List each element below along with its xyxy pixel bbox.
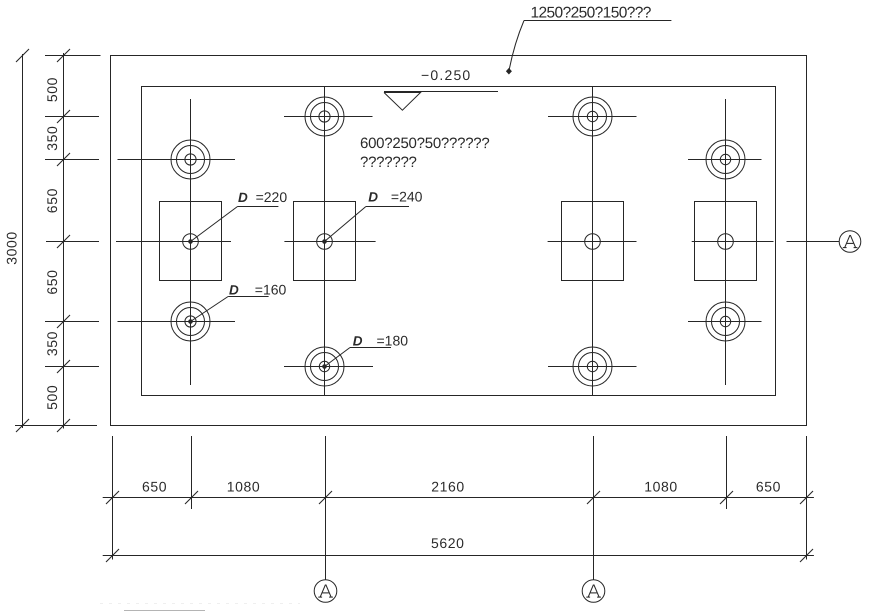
svg-text:1080: 1080 [227,478,261,494]
left extension row y=116.5 [45,116,99,118]
svg-text:1080: 1080 [644,478,678,494]
svg-text:500: 500 [44,77,60,102]
faint cropped title text at bottom left [124,610,205,612]
pile P2 top row column 3 [548,97,637,136]
bottom dimension row 1 [103,497,814,499]
svg-text:350: 350 [44,331,60,356]
pile P3 upper column 1 [118,140,236,179]
grid line column 2 [324,87,326,396]
inner foundation outline [142,87,776,396]
svg-text:5620: 5620 [431,535,465,551]
left extension row y=159.5 [45,159,99,161]
svg-text:1250?250?150???: 1250?250?150??? [530,5,651,22]
section bubble A bottom right [582,580,605,603]
bottom tick marks [106,491,813,562]
svg-text:D: D [368,190,378,205]
grid line column 3 [592,87,594,396]
bottom extension line column 3 down to bubble [593,436,595,580]
section bubble A right [839,231,861,253]
left extension row y=241.5 [46,241,99,243]
svg-text:D: D [229,283,239,298]
section bubble A bottom left [314,580,337,603]
pile P1 top row column 2 [284,97,373,136]
pile P7 bottom row column 2 [284,347,373,386]
leader D=160 to P5 pile [188,282,286,324]
svg-text:=180: =180 [376,333,408,349]
pile P8 bottom row column 3 [548,347,637,386]
grid line column 1 [190,99,192,385]
bottom extension line right edge [806,436,808,560]
pile P5 lower column 1 [118,302,236,341]
svg-text:=160: =160 [255,282,287,298]
svg-text:=240: =240 [391,189,423,205]
left extension row y=425.5 [15,425,97,427]
left chain tick marks [16,49,70,432]
grid line column 4 [725,99,727,385]
left dimension chain line [63,53,65,429]
svg-text:350: 350 [44,126,60,151]
bottom extension line column 1 [191,436,193,509]
bottom extension line column 4 [726,436,728,509]
svg-text:D: D [238,190,248,205]
level symbol -0.250 [384,67,498,110]
svg-text:650: 650 [44,188,60,213]
svg-text:650: 650 [142,478,167,494]
bottom extension line left edge [112,436,114,560]
svg-text:500: 500 [44,385,60,410]
leader note top: 1250?250?150??? [506,5,672,75]
svg-text:D: D [353,334,363,349]
leader D=220 to S1 anchor [188,189,287,244]
section line to right bubble A [787,241,840,243]
svg-text:600?250?50??????: 600?250?50?????? [360,135,489,152]
svg-text:650: 650 [756,478,781,494]
bottom extension line column 2 down to bubble [325,436,327,580]
pile P6 lower column 4 [688,302,762,341]
pile P4 upper column 4 [688,140,762,179]
leader D=180 to P7 pile [322,333,408,369]
bottom dimension row 2 [103,555,814,557]
pedestal square S4 with anchor circle [692,202,774,281]
svg-text:−0.250: −0.250 [421,67,471,83]
left extension row y=321.5 [45,321,99,323]
svg-text:2160: 2160 [431,478,465,494]
pedestal square S3 with anchor circle [548,202,637,281]
svg-text:650: 650 [44,269,60,294]
svg-text:=220: =220 [256,189,288,205]
left dimension overall line 3000 [22,54,24,428]
leader D=240 to S2 anchor [322,189,422,244]
left extension row y=55.5 [45,55,101,57]
pedestal square S2 with anchor circle [284,202,375,281]
left extension row y=366 [45,366,99,368]
pedestal square S1 with anchor circle [116,202,231,281]
svg-text:3000: 3000 [4,231,20,265]
svg-text:???????: ??????? [360,154,417,171]
outer foundation outline [111,56,807,426]
